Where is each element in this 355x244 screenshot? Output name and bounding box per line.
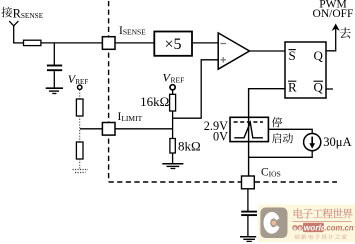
watermark logo eeworld	[258, 205, 355, 243]
label PWM ON/OFF	[313, 0, 354, 20]
wire (R input from UVLO)	[249, 89, 285, 118]
UVLO hysteresis block	[230, 117, 268, 141]
comparator U1	[218, 33, 249, 69]
label 启动	[272, 133, 293, 143]
wire (dotted)	[79, 159, 81, 169]
wire	[192, 42, 218, 44]
pin ILIMIT	[102, 123, 115, 136]
resistor 8k	[170, 138, 201, 153]
svg-text:R: R	[288, 80, 297, 95]
wire (current source return)	[249, 151, 313, 158]
wire	[247, 189, 249, 211]
svg-text:30μA: 30μA	[323, 135, 351, 149]
svg-text:16kΩ: 16kΩ	[140, 94, 169, 109]
resistor external lower	[76, 142, 83, 159]
terminal VREF (internal)	[163, 71, 185, 95]
amplifier x5 block	[154, 32, 192, 56]
wire (Qbar stub)	[326, 88, 333, 90]
label 接 RSENSE	[1, 6, 43, 20]
wire (divider node)	[172, 111, 174, 139]
arrow (to PWM ON/OFF)	[332, 24, 340, 32]
svg-text:REF: REF	[75, 78, 88, 86]
svg-text:ON/OFF: ON/OFF	[313, 8, 354, 20]
svg-text:Q: Q	[314, 80, 324, 95]
svg-text:×5: ×5	[164, 36, 181, 53]
pin CIOS	[242, 176, 255, 189]
capacitor CIOS external	[241, 212, 257, 237]
wire (ILIMIT to divider)	[115, 128, 173, 130]
resistor external upper	[76, 99, 83, 116]
resistor RSENSE	[24, 40, 41, 45]
wire (UVLO out to current source)	[268, 129, 312, 133]
wire	[13, 42, 23, 44]
svg-text:.com.cn: .com.cn	[324, 224, 354, 233]
ground (dotted, external chain)	[73, 170, 89, 173]
wire	[250, 50, 286, 52]
ground (below C1)	[46, 88, 63, 93]
ground (below CIOS cap)	[240, 237, 256, 242]
wire (external divider to ILIMIT pin)	[80, 128, 102, 130]
terminal Y (to RSENSE)	[9, 21, 18, 43]
wire (Q output)	[326, 27, 336, 51]
ground (below 8k)	[162, 164, 183, 169]
wire	[172, 153, 174, 163]
pin ISENSE	[102, 37, 115, 50]
svg-text:Q: Q	[314, 48, 324, 63]
svg-text:S: S	[289, 48, 296, 63]
wire (+ input from divider)	[173, 60, 219, 118]
wire	[115, 42, 154, 44]
svg-text:REF: REF	[171, 75, 185, 84]
svg-text:8kΩ: 8kΩ	[178, 138, 201, 153]
SR latch U2	[285, 42, 326, 98]
label 停	[272, 117, 282, 127]
wire (dotted)	[79, 90, 81, 99]
label 去	[340, 27, 351, 38]
terminal VREF (external)	[68, 72, 89, 89]
svg-text:0V: 0V	[213, 129, 228, 143]
current source 30uA	[304, 134, 321, 151]
wire (dotted)	[79, 116, 81, 142]
IC boundary dashed line	[109, 1, 337, 182]
capacitor C1	[47, 66, 62, 88]
wire (cap branch)	[53, 43, 55, 65]
resistor 16k	[140, 94, 175, 111]
wire	[41, 42, 102, 44]
wire (through UVLO)	[248, 117, 250, 176]
